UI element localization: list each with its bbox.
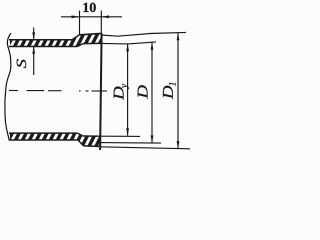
- socket inner bottom line: [83, 135, 101, 137]
- dimension 10 line: [61, 16, 122, 18]
- dimension Dy label: [114, 84, 129, 100]
- dimension 10 arrow right: [101, 15, 109, 18]
- dimension 10 left extension: [79, 11, 81, 35]
- dimension Dy arrows: [126, 44, 129, 136]
- extension line D bottom: [101, 142, 161, 145]
- break line left: [5, 33, 11, 141]
- hatching bottom wall and bell: [10, 133, 101, 146]
- socket inner top line: [83, 42, 101, 44]
- bell top slope: [72, 35, 80, 40]
- dimension D1 label: [163, 83, 176, 100]
- dimension D line: [151, 42, 153, 143]
- socket inner top taper: [78, 44, 84, 47]
- dimension 10 text: [83, 3, 95, 12]
- pipe wall bottom inner line: [9, 132, 78, 134]
- hatching top wall and bell: [10, 34, 101, 47]
- extension line D top: [101, 42, 156, 44]
- dimension S arrow up: [32, 47, 35, 54]
- dimension D label: [138, 85, 148, 98]
- bell bottom slope: [78, 140, 84, 146]
- dimension S text: [17, 59, 26, 68]
- dimension D arrows: [151, 42, 154, 143]
- dimension 10 arrow left: [72, 15, 80, 18]
- dimension Dy line: [127, 44, 129, 136]
- bell bottom outer line: [84, 145, 102, 148]
- extension line Dy bottom: [101, 135, 140, 137]
- dimension D1 line: [177, 33, 179, 149]
- pipe wall top inner line: [9, 46, 78, 48]
- centerline: [9, 90, 107, 93]
- dimension D1 arrows: [177, 33, 180, 149]
- dimension S arrow down: [32, 32, 35, 39]
- pipe wall top outer line: [9, 39, 72, 41]
- pipe wall bottom outer line: [9, 139, 78, 141]
- dimension S line below wall: [33, 47, 35, 75]
- extension line D1 bottom: [101, 147, 191, 149]
- socket inner bottom taper: [78, 133, 84, 136]
- dimension S line above wall: [33, 28, 35, 40]
- extension line D1 top: [101, 32, 186, 36]
- bell mouth end face: [100, 33, 102, 150]
- dimension 10 right extension: [100, 11, 102, 34]
- bell top outer line: [80, 33, 102, 34]
